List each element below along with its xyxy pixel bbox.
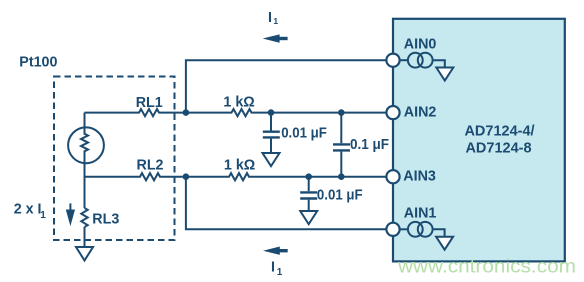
- svg-text:I: I: [268, 10, 272, 26]
- junction node (C2 top): [338, 109, 345, 116]
- svg-text:AIN0: AIN0: [404, 36, 437, 52]
- svg-text:0.1 μF: 0.1 μF: [350, 137, 389, 153]
- junction node (C1 top): [268, 109, 275, 116]
- svg-text:Pt100: Pt100: [19, 54, 57, 70]
- svg-text:RL1: RL1: [136, 95, 163, 111]
- Pt100 RTD dashed enclosure: [54, 77, 175, 241]
- svg-text:www.cntronics.com: www.cntronics.com: [397, 257, 576, 278]
- ground (C1): [263, 153, 280, 166]
- svg-text:1 kΩ: 1 kΩ: [223, 94, 254, 110]
- capacitor C3 0.01uF (row AIN3): [300, 177, 317, 211]
- ground (C3): [300, 211, 317, 224]
- current arrow I1 (bottom, pointing left): [263, 247, 288, 255]
- pin AIN2: [386, 106, 399, 119]
- current arrow I1 (top, pointing left): [263, 34, 288, 42]
- svg-text:0.01 μF: 0.01 μF: [317, 187, 363, 203]
- svg-text:AIN2: AIN2: [404, 105, 437, 121]
- svg-text:1: 1: [40, 210, 46, 221]
- junction node (rail/RL2): [183, 173, 190, 180]
- svg-text:AIN1: AIN1: [404, 205, 437, 221]
- svg-text:AD7124-8: AD7124-8: [465, 140, 531, 156]
- junction node (C2 bottom): [338, 173, 345, 180]
- current source IOUT0 (AIN0): [400, 53, 445, 68]
- junction node (rail/RL1): [183, 109, 190, 116]
- wire top rail to AIN0: [186, 60, 387, 112]
- svg-text:AIN3: AIN3: [403, 168, 436, 184]
- pin AIN1: [386, 223, 399, 236]
- ground (AIN1 current source): [436, 237, 453, 250]
- ground (Pt100 return): [76, 247, 93, 261]
- junction node (C3 top): [305, 173, 312, 180]
- pin AIN0: [386, 54, 399, 67]
- pin AIN3: [386, 170, 399, 183]
- current source IOUT1 (AIN1): [400, 222, 445, 237]
- wire row AIN3 with resistor RL2 and resistor 1 kOhm: [85, 173, 387, 180]
- svg-text:0.01 μF: 0.01 μF: [281, 125, 327, 141]
- capacitor C1 0.01uF (row AIN2): [263, 113, 280, 153]
- wire RL3 to ground: [84, 227, 86, 247]
- wire row AIN2 with resistor RL1 and resistor 1 kOhm: [85, 109, 387, 116]
- resistor RL3 (vertical): [81, 208, 87, 227]
- svg-text:1: 1: [277, 267, 283, 278]
- IC U1 AD7124-4/AD7124-8 body: [393, 19, 565, 262]
- ground (AIN0 current source): [436, 68, 453, 81]
- wire bottom rail to AIN1: [186, 177, 387, 230]
- svg-text:AD7124-4/: AD7124-4/: [464, 123, 534, 139]
- svg-text:2 x I: 2 x I: [14, 202, 42, 218]
- svg-text:1: 1: [273, 16, 278, 26]
- svg-text:RL3: RL3: [92, 211, 119, 227]
- wire Pt100 bottom to RL3: [84, 163, 86, 208]
- svg-text:RL2: RL2: [137, 158, 164, 174]
- current direction arrow 2 x I1 (down): [66, 203, 75, 226]
- svg-text:I: I: [271, 259, 275, 275]
- Pt100 sensor element (circle with zigzag): [68, 113, 104, 164]
- capacitor C2 0.1uF (between rows): [333, 113, 350, 177]
- svg-text:1 kΩ: 1 kΩ: [224, 158, 255, 174]
